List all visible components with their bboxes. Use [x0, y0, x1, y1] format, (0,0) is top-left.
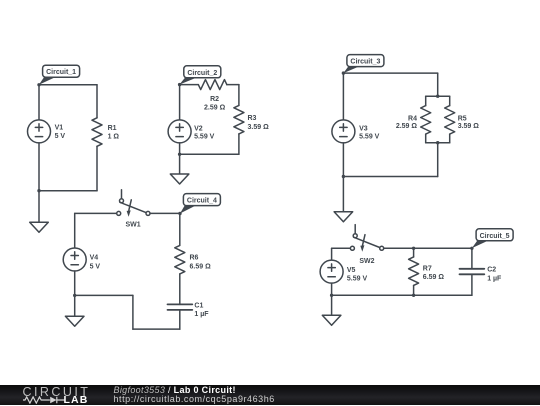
svg-text:2.59 Ω: 2.59 Ω	[396, 123, 418, 130]
node at bottom-left of circuit 3	[342, 175, 345, 178]
ground of circuit 4	[65, 295, 84, 326]
svg-text:6.59 Ω: 6.59 Ω	[423, 274, 445, 281]
resistor R2	[198, 80, 227, 112]
wire SW2 right terminal to C2 top	[384, 247, 472, 249]
ground of circuit 3	[334, 177, 353, 222]
svg-text:V2: V2	[194, 126, 203, 133]
node at top-left of circuit 2	[178, 83, 181, 86]
svg-text:R3: R3	[248, 115, 257, 122]
node at top of circuit 4	[178, 212, 181, 215]
resistor R5	[445, 106, 480, 135]
wire C2 top lead	[471, 248, 473, 268]
svg-text:5 V: 5 V	[55, 133, 66, 140]
svg-text:V3: V3	[359, 126, 368, 133]
capacitor C1	[168, 302, 210, 318]
svg-text:Circuit_2: Circuit_2	[187, 70, 217, 77]
wire rising segment	[132, 295, 134, 329]
node at bottom of circuit 4	[73, 294, 76, 297]
wire right branch lower	[238, 134, 240, 154]
node at bottom of circuit 2	[178, 153, 181, 156]
wire bottom of circuit 4	[133, 328, 180, 330]
wire left branch upper	[179, 85, 181, 120]
node at R7 bottom	[412, 294, 415, 297]
svg-text:SW1: SW1	[126, 222, 141, 229]
wire C1 bottom lead	[179, 310, 181, 329]
voltage source V2	[168, 120, 215, 143]
wire right drop to parallel pair	[437, 73, 439, 96]
svg-text:5.59 V: 5.59 V	[359, 134, 380, 141]
voltage source V3	[332, 120, 380, 143]
node at C2 top	[470, 247, 473, 250]
resistor R3	[234, 105, 269, 134]
footer url line	[114, 395, 275, 404]
node at top-left of circuit 1	[37, 83, 40, 86]
footer title line	[114, 386, 236, 395]
voltage source V5	[320, 260, 367, 283]
svg-text:5 V: 5 V	[90, 263, 101, 270]
svg-text:C2: C2	[487, 267, 496, 274]
node at top-left of circuit 3	[342, 71, 345, 74]
voltage source V4	[63, 248, 100, 271]
switch SW1	[117, 190, 150, 229]
wire right branch lower	[96, 146, 98, 190]
ground of circuit 5	[322, 295, 341, 325]
svg-text:2.59 Ω: 2.59 Ω	[204, 105, 226, 112]
node at top of parallel pair	[436, 95, 439, 98]
svg-text:3.59 Ω: 3.59 Ω	[248, 124, 270, 131]
wire right branch upper	[238, 85, 240, 106]
resistor R7	[409, 257, 445, 286]
wire left branch lower	[179, 143, 181, 154]
label tag Circuit_4	[180, 194, 220, 214]
footer bar	[0, 385, 540, 405]
switch SW2	[350, 225, 383, 265]
svg-text:R5: R5	[458, 115, 467, 122]
wire bottom of circuit 1	[39, 190, 97, 192]
wire R6 to C1	[179, 274, 181, 305]
wire left branch lower	[342, 143, 344, 177]
svg-text:6.59 Ω: 6.59 Ω	[190, 264, 212, 271]
wire bottom of circuit 5	[332, 294, 472, 296]
wire left branch upper	[38, 85, 40, 120]
svg-text:Circuit_3: Circuit_3	[350, 59, 380, 66]
wire top bar of parallel pair	[426, 95, 450, 97]
wire bottom bar of parallel pair	[426, 142, 450, 144]
wire left branch stub bottom	[425, 134, 427, 143]
svg-text:1 µF: 1 µF	[194, 311, 209, 318]
svg-text:1 Ω: 1 Ω	[108, 134, 120, 141]
wire bottom of circuit 3	[343, 176, 437, 178]
resistor R6	[175, 245, 211, 274]
svg-text:5.59 V: 5.59 V	[194, 133, 215, 140]
svg-text:3.59 Ω: 3.59 Ω	[458, 123, 480, 130]
svg-text:Circuit_5: Circuit_5	[480, 233, 510, 240]
node at bottom of circuit 1	[37, 189, 40, 192]
wire left branch lower	[38, 143, 40, 191]
svg-text:SW2: SW2	[359, 258, 374, 265]
CircuitLab logo wordmark CIRCUIT	[23, 386, 91, 399]
wire V5 to SW2 left terminal	[332, 247, 351, 249]
wire V4 bottom lead	[74, 271, 76, 295]
svg-text:5.59 V: 5.59 V	[347, 276, 368, 283]
wire left branch stub top	[425, 96, 427, 105]
wire R7 top lead	[413, 248, 415, 257]
ground of circuit 2	[170, 154, 189, 184]
capacitor C2	[460, 267, 503, 283]
wire top-left to R2	[180, 84, 199, 86]
wire bottom of circuit 2	[180, 153, 239, 155]
ground of circuit 1	[30, 191, 49, 233]
wire R7 bottom lead	[413, 285, 415, 295]
svg-text:C1: C1	[194, 302, 203, 309]
wire R2 to top-right corner	[227, 84, 239, 86]
wire right branch upper	[96, 85, 98, 118]
wire top of circuit 3	[343, 72, 437, 74]
svg-text:Circuit_4: Circuit_4	[187, 198, 217, 205]
node at bottom of circuit 5	[330, 294, 333, 297]
label tag Circuit_2	[179, 66, 221, 85]
svg-text:R7: R7	[423, 265, 432, 272]
label tag Circuit_5	[472, 229, 513, 248]
resistor R1	[92, 118, 119, 147]
wire left branch upper	[342, 73, 344, 120]
wire to V4 bottom node	[75, 294, 133, 296]
wire right branch stub bottom	[449, 134, 451, 143]
svg-text:R2: R2	[210, 96, 219, 103]
svg-text:R6: R6	[190, 254, 199, 261]
wire node down to R6	[179, 214, 181, 246]
node at R7 top	[412, 247, 415, 250]
svg-text:1 µF: 1 µF	[487, 276, 502, 283]
voltage source V1	[28, 120, 66, 143]
CircuitLab logo squiggle (resistor + diode)	[23, 396, 65, 404]
node at bottom of parallel pair	[436, 141, 439, 144]
wire SW1 right terminal to node	[150, 212, 180, 214]
wire right branch lower	[437, 143, 439, 177]
svg-text:R4: R4	[408, 115, 417, 122]
svg-text:R1: R1	[108, 125, 117, 132]
resistor R4	[396, 106, 431, 135]
label tag Circuit_1	[39, 65, 80, 85]
svg-text:V1: V1	[55, 125, 64, 132]
wire V4 to SW1 left terminal	[75, 212, 117, 214]
wire V5 bottom lead	[331, 283, 333, 295]
wire right branch stub top	[449, 96, 451, 105]
svg-text:V4: V4	[90, 254, 99, 261]
svg-text:Circuit_1: Circuit_1	[46, 69, 76, 76]
CircuitLab logo wordmark LAB	[64, 395, 89, 406]
svg-text:V5: V5	[347, 267, 356, 274]
wire C2 bottom lead	[471, 274, 473, 295]
label tag Circuit_3	[343, 55, 384, 74]
wire top of circuit 1	[39, 84, 97, 86]
wire V4 top lead up	[74, 213, 76, 248]
wire V5 top lead up	[331, 248, 333, 260]
